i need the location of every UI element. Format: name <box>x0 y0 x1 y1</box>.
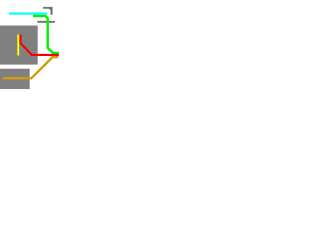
pin line (gray pad stub) <box>37 21 55 23</box>
wire N1 (cyan trace) <box>9 13 47 15</box>
wire N3 (yellow trace) <box>17 35 19 56</box>
pad block P2 (lower gray obstacle) <box>0 69 30 89</box>
wire N2 (green trace) <box>33 16 59 53</box>
wire N4 (red trace) <box>21 35 59 55</box>
courtyard corner bracket <box>43 7 53 15</box>
wire N5 (dark-yellow trace) <box>3 57 59 78</box>
pad block P1 (large gray obstacle) <box>0 26 38 65</box>
